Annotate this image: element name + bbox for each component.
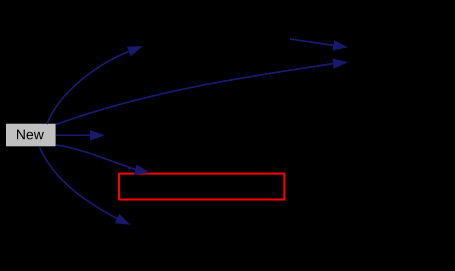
edge New -> upper-left target (curved, arrowhead NE) (47, 46, 143, 124)
edge New -> near right target (horizontal arrow) (56, 130, 105, 141)
node (red box, label hidden on black) (119, 174, 284, 200)
node New (filled box) (6, 124, 56, 147)
edge top-right pair (short arrow between hidden nodes) (290, 39, 348, 51)
edge New -> lower target (curved down, arrowhead SE) (40, 147, 131, 225)
edge New -> far right target (long curve, arrowhead E) (56, 59, 348, 125)
edge New -> red box (arrow into box top-left) (56, 145, 150, 175)
